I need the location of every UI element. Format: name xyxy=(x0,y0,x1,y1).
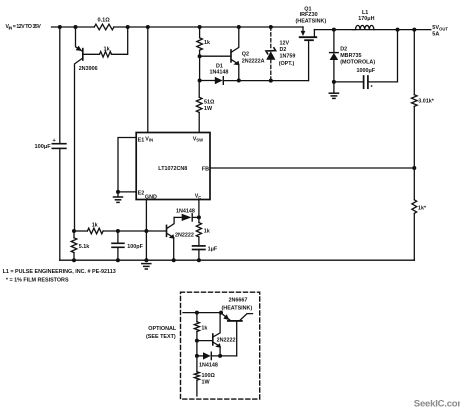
resistor 1k* xyxy=(413,168,415,200)
resistor 5.1k xyxy=(73,231,75,238)
diode D2 MBR735 xyxy=(330,30,376,93)
svg-text:170μH: 170μH xyxy=(358,16,374,22)
capacitor 1000uF output xyxy=(357,30,398,91)
capacitor 100pF xyxy=(112,231,144,260)
wire Vc pin down xyxy=(198,200,200,218)
svg-text:1N4148: 1N4148 xyxy=(199,362,218,368)
capacitor 1uF xyxy=(193,246,218,260)
svg-text:E1: E1 xyxy=(138,138,145,144)
svg-text:OPTIONAL: OPTIONAL xyxy=(148,326,177,332)
svg-text:1W: 1W xyxy=(202,380,211,386)
svg-text:1W: 1W xyxy=(204,106,213,112)
transistor 2N2222 (optional) xyxy=(197,313,236,356)
wire left rail lower xyxy=(59,148,61,260)
svg-text:SeekIC.com: SeekIC.com xyxy=(414,398,460,409)
svg-text:1k*: 1k* xyxy=(418,206,427,212)
svg-text:2N3906: 2N3906 xyxy=(79,66,98,72)
op-amp U1 LT1072CN8 box xyxy=(136,133,210,201)
svg-text:(HEATSINK): (HEATSINK) xyxy=(222,306,253,312)
svg-text:51Ω: 51Ω xyxy=(204,99,215,105)
svg-text:0.1Ω: 0.1Ω xyxy=(98,18,111,24)
svg-text:1N4148: 1N4148 xyxy=(176,208,195,214)
resistor 1k (2N3906 base) xyxy=(83,53,100,55)
svg-text:2N2222A: 2N2222A xyxy=(242,58,265,64)
ground (below MBR735) xyxy=(329,93,338,98)
svg-text:(MOTOROLA): (MOTOROLA) xyxy=(340,60,375,66)
svg-text:VC: VC xyxy=(195,194,202,200)
svg-text:5.1k: 5.1k xyxy=(79,244,90,250)
svg-text:1N4148: 1N4148 xyxy=(210,70,229,76)
svg-text:12V: 12V xyxy=(280,41,290,47)
resistor 0.1ohm inline xyxy=(94,24,114,30)
svg-text:100Ω: 100Ω xyxy=(202,373,216,379)
svg-text:1k: 1k xyxy=(201,326,207,332)
diode D1 1N4148 xyxy=(200,64,309,85)
wire top rail right (drain to output) xyxy=(315,29,431,31)
svg-text:3.01k*: 3.01k* xyxy=(418,99,434,105)
svg-text:VSW: VSW xyxy=(193,136,203,142)
svg-text:(HEATSINK): (HEATSINK) xyxy=(296,18,327,24)
svg-text:1k: 1k xyxy=(104,46,111,52)
svg-text:100pF: 100pF xyxy=(127,244,143,250)
wire MBR anode to cap xyxy=(334,81,364,83)
svg-text:1N759: 1N759 xyxy=(280,54,296,60)
diode 1N4148 (optional) xyxy=(197,352,237,368)
svg-text:100μF: 100μF xyxy=(35,144,52,150)
svg-text:5A: 5A xyxy=(432,31,439,37)
inductor L1 170uH xyxy=(353,10,375,30)
svg-text:D2: D2 xyxy=(280,47,287,53)
transistor Q1 IRFZ30 MOSFET xyxy=(296,6,327,80)
svg-text:1k: 1k xyxy=(204,229,210,235)
svg-text:LT1072CN8: LT1072CN8 xyxy=(158,166,187,172)
zener D2 1N759 (dashed optional) xyxy=(266,27,295,81)
svg-text:L1 = PULSE ENGINEERING, INC.: L1 = PULSE ENGINEERING, INC. # PE-92113 xyxy=(3,269,116,275)
optional dashed box xyxy=(181,292,260,399)
transistor 2N6667 (optional) xyxy=(221,298,253,356)
svg-text:MBR735: MBR735 xyxy=(340,53,361,59)
svg-text:1000μF: 1000μF xyxy=(357,68,376,74)
svg-text:1k: 1k xyxy=(92,223,98,229)
svg-text:VIN = 12V TO 35V: VIN = 12V TO 35V xyxy=(6,24,42,31)
resistor 1k (Vc) xyxy=(196,223,201,238)
wire optional top stub xyxy=(183,312,221,314)
transistor Q 2N3906 xyxy=(75,27,98,231)
svg-text:IRFZ30: IRFZ30 xyxy=(300,12,318,18)
svg-text:(OPT.): (OPT.) xyxy=(279,61,295,67)
wire left rail down xyxy=(59,27,61,144)
wire GND pin down xyxy=(145,200,147,261)
svg-text:(SEE TEXT): (SEE TEXT) xyxy=(146,334,176,340)
diode 1N4148 (Vc clamp) xyxy=(174,208,199,221)
resistor 1k (optional) xyxy=(196,313,198,322)
svg-text:2N6667: 2N6667 xyxy=(229,298,248,304)
resistor 3.01k* xyxy=(413,30,415,95)
ground (E1/E2) xyxy=(114,197,123,202)
svg-text:FB: FB xyxy=(202,166,209,172)
wire FB line xyxy=(210,167,414,169)
wire top rail middle xyxy=(114,26,303,28)
transistor 2N2222 (Vc) xyxy=(167,217,194,260)
transistor Q2 2N2222A xyxy=(200,27,265,81)
resistor 1k (Q2 base pullup) xyxy=(199,27,201,38)
svg-text:2N2222: 2N2222 xyxy=(217,338,236,344)
svg-text:Q2: Q2 xyxy=(242,51,249,57)
svg-text:2N2222: 2N2222 xyxy=(175,233,194,239)
svg-text:D2: D2 xyxy=(340,46,347,52)
wire bottom rail xyxy=(60,259,415,261)
resistor 51ohm 1W xyxy=(198,81,200,98)
resistor 100ohm 1W (optional) xyxy=(196,356,198,372)
svg-text:VIN: VIN xyxy=(145,136,153,142)
capacitor 100uF input xyxy=(52,143,66,145)
resistor 1k (compensation) xyxy=(87,228,103,234)
ground (GND pin) xyxy=(142,264,151,269)
wire E1 E2 to ground xyxy=(118,138,136,192)
svg-text:1μF: 1μF xyxy=(208,247,218,253)
wire base line xyxy=(74,230,87,232)
svg-text:1k: 1k xyxy=(204,40,210,46)
wire IC Vin pin xyxy=(147,27,149,133)
svg-text:* = 1% FILM RESISTORS: * = 1% FILM RESISTORS xyxy=(6,277,69,283)
wire top rail left xyxy=(52,26,95,28)
svg-text:E2: E2 xyxy=(138,191,145,197)
